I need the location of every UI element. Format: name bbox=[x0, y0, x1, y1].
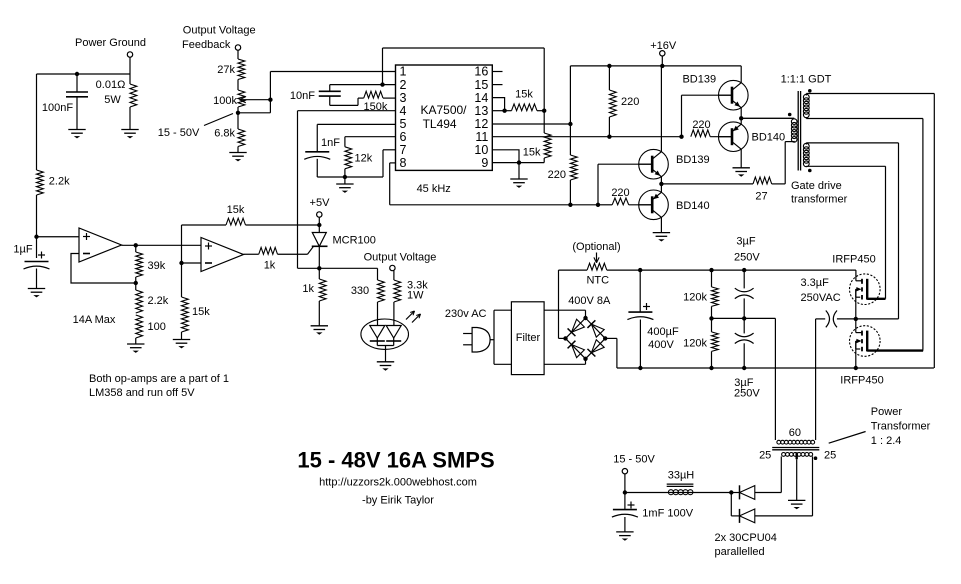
resistor 220 (Q4 base) bbox=[612, 198, 629, 205]
transformer GDT secondary 1 winding bbox=[803, 94, 809, 100]
resistor 2.2k (sense filter) bbox=[37, 170, 44, 195]
ground optocoupler bbox=[377, 361, 394, 363]
thermistor NTC bbox=[559, 269, 588, 271]
wire M2 source to ground rail bbox=[855, 341, 857, 368]
thyristor MCR100 bbox=[318, 225, 320, 233]
svg-text:1µF: 1µF bbox=[13, 244, 32, 256]
wire main ground rail bbox=[617, 367, 934, 369]
svg-text:330: 330 bbox=[351, 285, 369, 297]
wire filter bottom output to bridge bbox=[544, 363, 585, 365]
svg-text:Gate drive: Gate drive bbox=[791, 180, 842, 192]
svg-text:2: 2 bbox=[400, 78, 407, 92]
resistor 39k bbox=[135, 245, 137, 252]
svg-text:Feedback: Feedback bbox=[182, 39, 231, 51]
wire divider midpoint to transformer bbox=[712, 317, 776, 319]
svg-text:15k: 15k bbox=[192, 306, 210, 318]
T2 phase dot bbox=[814, 456, 818, 460]
svg-text:1mF 100V: 1mF 100V bbox=[642, 508, 693, 520]
resistor 220 (pin8 pullup) upper segment bbox=[569, 66, 571, 124]
svg-text:12k: 12k bbox=[355, 152, 373, 164]
junction rail/120k bbox=[709, 366, 713, 370]
wire bridge - to ground rail bbox=[605, 337, 617, 339]
junction pins 9/10 bbox=[517, 160, 521, 164]
wire bridge + to NTC bbox=[559, 337, 566, 339]
wire pin4 vertical bbox=[297, 111, 299, 269]
wire GDT sec2 top lead bbox=[806, 142, 898, 144]
400uF plus sign bbox=[643, 306, 650, 308]
resistor 220 (pin8 pullup) bbox=[569, 124, 571, 155]
svg-text:15 - 50V: 15 - 50V bbox=[158, 127, 200, 139]
capacitor 3.3uF 250VAC bbox=[826, 311, 830, 328]
wire op2 -input stub bbox=[182, 262, 202, 264]
terminal Output Voltage bbox=[390, 265, 395, 270]
junction wiper / pin1 branch bbox=[268, 98, 272, 102]
wire M2 drain from midpoint bbox=[855, 319, 857, 333]
bridge diode top-right bbox=[587, 320, 595, 328]
svg-text:9: 9 bbox=[481, 156, 488, 170]
svg-text:(Optional): (Optional) bbox=[572, 241, 620, 253]
inductor 33uH bbox=[625, 492, 731, 494]
resistor 15k (feedback top) bbox=[226, 218, 246, 225]
svg-text:8: 8 bbox=[400, 156, 407, 170]
junction bridge corners bbox=[583, 316, 587, 320]
svg-text:Transformer: Transformer bbox=[871, 421, 931, 433]
svg-text:+5V: +5V bbox=[310, 197, 331, 209]
svg-text:3µF: 3µF bbox=[736, 236, 755, 248]
wire +16V rail bbox=[570, 65, 741, 67]
op-amp U1B (LM358) bbox=[201, 238, 244, 272]
junction M2 source/rail bbox=[854, 366, 858, 370]
terminal 15 - 50V output bbox=[622, 469, 627, 474]
wire lower totem output bbox=[661, 183, 753, 185]
wire M2 gate arm to GDT bbox=[867, 349, 923, 351]
svg-text:4: 4 bbox=[400, 104, 407, 118]
wire filter top output to bridge bbox=[544, 309, 585, 311]
svg-text:220: 220 bbox=[611, 187, 629, 199]
ground 1k pulldown bbox=[311, 325, 328, 327]
svg-text:1 : 2.4: 1 : 2.4 bbox=[871, 435, 902, 447]
terminal +5V bbox=[317, 212, 322, 217]
wire diode junction bbox=[730, 493, 732, 516]
wire pin11 drive line bbox=[492, 136, 681, 138]
pin 15 stub bbox=[492, 84, 502, 86]
svg-text:1nF: 1nF bbox=[321, 137, 340, 149]
junction divider mid/3uF bbox=[742, 316, 746, 320]
wire op1 +input bbox=[37, 236, 80, 238]
svg-text:Power: Power bbox=[871, 406, 903, 418]
wire Q4 collector to ground bbox=[660, 217, 662, 232]
ground center tap bbox=[788, 499, 805, 501]
svg-text:parallelled: parallelled bbox=[715, 546, 765, 558]
svg-text:39k: 39k bbox=[148, 260, 166, 272]
junction half-bridge midpoint bbox=[854, 317, 858, 321]
capacitor 100nF bbox=[76, 74, 78, 92]
junction pin12/Vcc bbox=[568, 122, 572, 126]
svg-text:11: 11 bbox=[475, 130, 488, 144]
wire opto cathodes to ground bbox=[376, 341, 378, 346]
svg-text:LM358 and run off 5V: LM358 and run off 5V bbox=[89, 387, 195, 399]
wire M1 gate arm to GDT bbox=[867, 298, 885, 300]
wire plug to filter bbox=[490, 339, 494, 341]
wire pin5 stub bbox=[317, 123, 395, 125]
svg-text:3.3µF: 3.3µF bbox=[801, 277, 830, 289]
pot wiper arrow bbox=[240, 99, 271, 101]
transistor Q4 BD140 (lower pair) bbox=[639, 190, 669, 220]
resistor 1k (cathode pulldown) bbox=[318, 268, 320, 279]
svg-text:0.01Ω: 0.01Ω bbox=[96, 79, 126, 91]
capacitor 400uF 400V bbox=[639, 270, 641, 312]
svg-text:+16V: +16V bbox=[650, 40, 677, 52]
op-amp U1A (LM358) bbox=[79, 228, 122, 262]
bridge diode top-left bbox=[568, 328, 576, 336]
svg-text:5W: 5W bbox=[104, 94, 121, 106]
svg-text:Filter: Filter bbox=[516, 332, 541, 344]
svg-text:100: 100 bbox=[148, 321, 166, 333]
junction op1 output / 39k bbox=[134, 243, 138, 247]
capacitor 3uF 250V lower bbox=[743, 318, 745, 333]
resistor 0.01ohm 5W bbox=[129, 74, 131, 84]
wire T2 sec left lead bbox=[780, 456, 782, 492]
resistor 27 bbox=[753, 177, 772, 184]
resistor 2.2k (gain) bbox=[135, 283, 137, 290]
transformer T2 core bbox=[772, 447, 819, 449]
svg-text:60: 60 bbox=[789, 427, 801, 439]
wire coupling cap to transformer primary bbox=[816, 318, 826, 320]
ground 100nF bbox=[68, 129, 85, 131]
svg-text:BD139: BD139 bbox=[682, 73, 716, 85]
wire op1 output to op2 +input bbox=[122, 244, 202, 246]
mains plug bbox=[463, 333, 472, 335]
junction +5V / MCR100 anode bbox=[317, 223, 321, 227]
wire M1 drain from DC bus bbox=[855, 270, 857, 281]
transformer T2 secondary winding 25+25 bbox=[782, 453, 786, 457]
svg-text:BD139: BD139 bbox=[676, 154, 710, 166]
GDT sec2 phase dot bbox=[808, 169, 812, 173]
resistor 15k (to ground) bbox=[182, 297, 189, 332]
transistor M2 IRFP450 bottom bbox=[850, 326, 881, 357]
ground Q4 bbox=[653, 232, 670, 234]
svg-text:25: 25 bbox=[824, 450, 836, 462]
IC U2 KA7500/TL494 body bbox=[396, 65, 493, 170]
svg-text:5: 5 bbox=[400, 117, 407, 131]
filter box bbox=[511, 302, 544, 375]
svg-text:12: 12 bbox=[474, 117, 488, 131]
wire op2 -input divider vertical bbox=[181, 225, 183, 297]
svg-text:100k: 100k bbox=[213, 95, 237, 107]
terminal Power Ground bbox=[127, 52, 132, 57]
resistor 27k bbox=[238, 59, 245, 80]
svg-text:15 - 50V: 15 - 50V bbox=[613, 454, 655, 466]
wire pin4 horizontal to IC bbox=[298, 110, 396, 112]
wire deadtime vertical x544 bbox=[543, 48, 545, 111]
svg-text:16: 16 bbox=[474, 65, 488, 79]
svg-text:13: 13 bbox=[474, 104, 488, 118]
junction rectifier output bbox=[729, 490, 733, 494]
svg-text:KA7500/: KA7500/ bbox=[420, 103, 467, 117]
svg-text:10nF: 10nF bbox=[290, 90, 315, 102]
resistor 220 (pin11 pullup) bbox=[608, 66, 610, 90]
1mF plus sign bbox=[628, 504, 635, 506]
junction pin13 node bbox=[542, 109, 546, 113]
svg-text:27: 27 bbox=[755, 191, 767, 203]
svg-text:14A Max: 14A Max bbox=[73, 314, 116, 326]
junction pin8 line/pullup bbox=[568, 203, 572, 207]
transformer T2 primary winding 60t bbox=[777, 440, 781, 444]
wire Q3 base bbox=[598, 163, 653, 165]
wire GDT sec1 bottom lead bbox=[806, 118, 923, 120]
svg-text:6.8k: 6.8k bbox=[214, 128, 235, 140]
callout line power transformer bbox=[829, 432, 866, 444]
wire GDT sec1 top lead bbox=[806, 93, 934, 95]
svg-text:15k: 15k bbox=[523, 147, 541, 159]
bridge diode bottom-right bbox=[587, 349, 595, 357]
junction Q1 base / pin11 line bbox=[679, 135, 683, 139]
wire pin10 stub bbox=[492, 150, 519, 163]
svg-text:IRFP450: IRFP450 bbox=[832, 253, 875, 265]
wire Q1 collector to rail bbox=[740, 66, 742, 83]
junction divider mid/120k bbox=[709, 316, 713, 320]
svg-text:1W: 1W bbox=[407, 290, 424, 302]
junction Q3 base / pin8 line bbox=[596, 203, 600, 207]
resistor 220 (Q2 base) bbox=[691, 130, 710, 137]
svg-text:220: 220 bbox=[692, 119, 710, 131]
svg-text:27k: 27k bbox=[217, 64, 235, 76]
svg-text:45 kHz: 45 kHz bbox=[417, 183, 451, 195]
junction rail/3uF bbox=[742, 366, 746, 370]
svg-text:230v AC: 230v AC bbox=[445, 308, 487, 320]
transformer GDT core bbox=[797, 91, 799, 171]
transformer GDT primary winding bbox=[741, 117, 794, 119]
transistor Q2 BD140 (upper pair) bbox=[719, 122, 749, 152]
svg-text:transformer: transformer bbox=[791, 193, 848, 205]
svg-text:1k: 1k bbox=[264, 260, 276, 272]
svg-text:Output Voltage: Output Voltage bbox=[364, 252, 437, 264]
svg-text:1:1:1 GDT: 1:1:1 GDT bbox=[781, 74, 832, 86]
wire Q3 emitter / Q4 emitter junction bbox=[660, 177, 662, 193]
terminal Output Voltage Feedback bbox=[235, 45, 240, 50]
resistor 120k upper bbox=[709, 268, 713, 272]
ground Q2 bbox=[733, 167, 750, 169]
diode D5 30CPU04 bbox=[739, 485, 741, 499]
transistor Q1 BD139 (upper pair) bbox=[719, 80, 749, 110]
svg-text:250V: 250V bbox=[734, 252, 760, 264]
svg-text:14: 14 bbox=[474, 91, 488, 105]
wire T2 sec right lead bbox=[812, 456, 814, 516]
junction pin11/pullup bbox=[607, 135, 611, 139]
junction rail/220 pullup2 bbox=[607, 64, 611, 68]
ground IC emitters bbox=[518, 163, 520, 179]
bridge diode bottom-left bbox=[568, 341, 576, 349]
svg-text:15k: 15k bbox=[515, 89, 533, 101]
wire center tap to ground bbox=[796, 459, 798, 500]
resistor 1k (op2 out to gate) bbox=[244, 253, 259, 255]
ground 0.01ohm bbox=[121, 129, 138, 131]
pin 16 stub bbox=[492, 71, 502, 73]
svg-text:2x 30CPU04: 2x 30CPU04 bbox=[715, 532, 777, 544]
wire pin1 line bbox=[270, 71, 395, 73]
wire pin14 stub bbox=[492, 98, 504, 111]
wire Q1 base vertical bbox=[682, 94, 734, 96]
svg-text:BD140: BD140 bbox=[752, 132, 786, 144]
junction 39k/2.2k/feedback bbox=[134, 281, 138, 285]
wire wiper net bbox=[269, 72, 271, 113]
junction bus/400uF bbox=[638, 268, 642, 272]
ground pin5 network bbox=[344, 177, 346, 184]
wire 27 to GDT primary bottom bbox=[784, 142, 786, 184]
svg-text:-by Eirik Taylor: -by Eirik Taylor bbox=[362, 495, 434, 507]
svg-text:220: 220 bbox=[621, 96, 639, 108]
svg-text:TL494: TL494 bbox=[423, 117, 457, 131]
wire op1 -input feedback loop bbox=[71, 254, 136, 284]
junction pin2 node bbox=[380, 82, 384, 86]
svg-text:250V: 250V bbox=[734, 387, 760, 399]
wire +5V line with 15k bbox=[182, 224, 227, 226]
transformer GDT secondary 2 winding bbox=[803, 143, 809, 149]
wire 15k to +5V node bbox=[246, 224, 320, 226]
capacitor 3uF 250V upper bbox=[742, 268, 746, 272]
resistor 3.3k 1W bbox=[393, 271, 395, 280]
svg-text:15k: 15k bbox=[227, 204, 245, 216]
svg-text:15 - 48V 16A SMPS: 15 - 48V 16A SMPS bbox=[297, 448, 494, 473]
junction rail/400uF bbox=[638, 366, 642, 370]
resistor 15k (pin13 to pin9) bbox=[543, 111, 545, 133]
svg-text:120k: 120k bbox=[683, 292, 707, 304]
T2 center tap bbox=[796, 452, 798, 459]
svg-text:Both op-amps are a part of 1: Both op-amps are a part of 1 bbox=[89, 373, 229, 385]
wire midpoint to coupling cap bbox=[837, 318, 856, 320]
junction sense node / 1uF bbox=[34, 235, 38, 239]
capacitor 1nF bbox=[305, 151, 329, 153]
wire Q3 collector to +16V rail bbox=[660, 66, 662, 152]
junction op2 -input bbox=[179, 261, 183, 265]
GDT primary phase dot bbox=[788, 113, 792, 117]
svg-text:15: 15 bbox=[474, 78, 488, 92]
optocoupler dual LED bbox=[361, 319, 409, 349]
transistor M1 IRFP450 top bbox=[850, 274, 881, 305]
junction output cap bbox=[623, 490, 627, 494]
transistor Q3 BD139 (lower pair) bbox=[639, 149, 669, 179]
svg-text:400V: 400V bbox=[648, 339, 674, 351]
wire midpoint to GDT sec2 return bbox=[856, 318, 899, 320]
svg-text:3: 3 bbox=[400, 91, 407, 105]
junction power rail / 100nF bbox=[75, 72, 79, 76]
wire pin2 stub bbox=[330, 84, 396, 86]
svg-text:120k: 120k bbox=[683, 337, 707, 349]
svg-text:33µH: 33µH bbox=[668, 470, 695, 482]
wire M1 source to midpoint bbox=[855, 289, 857, 319]
resistor 120k lower bbox=[711, 318, 713, 332]
svg-text:25: 25 bbox=[759, 450, 771, 462]
resistor 150k bbox=[358, 97, 364, 99]
bridge rectifier D1-D4 400V 8A bbox=[566, 318, 586, 338]
svg-text:Power Ground: Power Ground bbox=[75, 37, 146, 49]
ground 1mF bbox=[616, 531, 633, 533]
svg-text:BD140: BD140 bbox=[676, 200, 710, 212]
wire feedback top run (pin2 to 544) bbox=[383, 47, 545, 49]
ground 15k bbox=[173, 339, 190, 341]
junction MCR100 cathode node bbox=[317, 266, 321, 270]
capacitor 1mF 100V bbox=[624, 493, 626, 510]
wire Q1 emitter / Q2 emitter junction bbox=[740, 108, 742, 125]
svg-text:1k: 1k bbox=[302, 283, 314, 295]
GDT sec1 phase dot bbox=[808, 89, 812, 93]
wire pin12 Vcc stub bbox=[492, 123, 570, 125]
svg-text:250VAC: 250VAC bbox=[801, 292, 841, 304]
potentiometer 100k bbox=[237, 80, 239, 91]
wire Q2 collector to ground bbox=[740, 149, 742, 168]
resistor 330 (LED) bbox=[377, 268, 379, 280]
svg-text:7: 7 bbox=[400, 143, 407, 157]
svg-text:2.2k: 2.2k bbox=[148, 295, 169, 307]
wire GDT sec2 bottom lead bbox=[806, 165, 885, 167]
junction 12k bottom bbox=[343, 175, 347, 179]
capacitor 10nF bbox=[329, 85, 331, 92]
ground 1uF bbox=[28, 288, 45, 290]
resistor 100 bbox=[136, 315, 143, 338]
svg-text:220: 220 bbox=[548, 169, 566, 181]
wire pin9 stub bbox=[492, 162, 519, 164]
junction divider tap bbox=[236, 111, 240, 115]
capacitor 1uF bbox=[36, 237, 38, 258]
wire DTC node horizontal bbox=[298, 267, 378, 269]
wire pin8 drive line bbox=[390, 204, 598, 206]
opto light arrows bbox=[406, 311, 415, 320]
wire pin7 stub bbox=[383, 149, 396, 151]
terminal +16V bbox=[660, 51, 665, 56]
diode D6 30CPU04 bbox=[739, 509, 741, 523]
svg-text:100nF: 100nF bbox=[42, 102, 73, 114]
svg-text:10: 10 bbox=[474, 143, 488, 157]
svg-text:Output Voltage: Output Voltage bbox=[183, 25, 256, 37]
svg-text:1: 1 bbox=[400, 65, 407, 79]
svg-text:400µF: 400µF bbox=[647, 326, 679, 338]
ground 6.8k bbox=[229, 152, 246, 154]
resistor 12k bbox=[344, 137, 346, 147]
svg-text:IRFP450: IRFP450 bbox=[840, 374, 883, 386]
wire DC bus bbox=[607, 269, 856, 271]
svg-text:NTC: NTC bbox=[586, 275, 609, 287]
wire 1nF/12k bottom rail bbox=[317, 176, 383, 178]
junction rail/+16V terminal bbox=[660, 64, 664, 68]
NTC arrow mark bbox=[596, 253, 598, 262]
svg-text:150k: 150k bbox=[363, 101, 387, 113]
wire 10nF bottom loop bbox=[330, 104, 358, 106]
resistor 6.8k bbox=[237, 113, 239, 129]
svg-text:2.2k: 2.2k bbox=[49, 176, 70, 188]
wire pin6 stub bbox=[345, 136, 396, 138]
wire current-sense line down left side bbox=[36, 74, 38, 170]
svg-text:MCR100: MCR100 bbox=[333, 235, 376, 247]
svg-text:6: 6 bbox=[400, 130, 407, 144]
wire power-ground rail bbox=[37, 73, 131, 75]
wire upper totem output to GDT primary bbox=[741, 117, 794, 119]
wire pin8 stub and vertical bbox=[390, 162, 396, 164]
svg-text:http://uzzors2k.000webhost.com: http://uzzors2k.000webhost.com bbox=[319, 477, 477, 489]
resistor 15k (pins 13-14) bbox=[492, 110, 504, 112]
ground 100 resistor bbox=[127, 343, 144, 345]
svg-text:400V 8A: 400V 8A bbox=[568, 295, 611, 307]
